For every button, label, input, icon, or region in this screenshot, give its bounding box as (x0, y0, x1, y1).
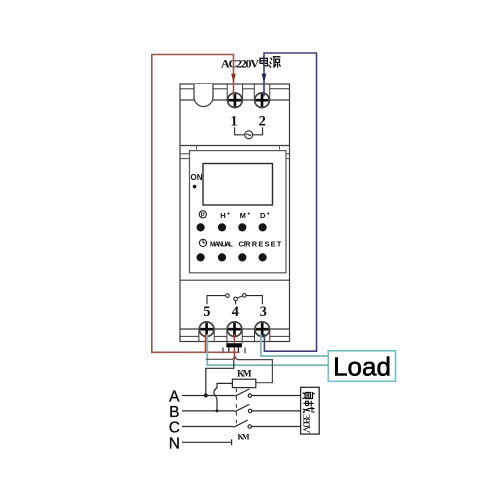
red wire drop terminal 4 (233, 334, 235, 360)
wire from terminal 4 down (206, 360, 234, 396)
Load box (328, 351, 395, 382)
glyph yuan (source) (269, 57, 280, 68)
svg-text:4: 4 (232, 304, 239, 320)
neutral N line (182, 439, 232, 445)
red wire arrow into terminal 1 (231, 74, 236, 83)
svg-text:P: P (201, 213, 205, 219)
glyph zai (load-2) (303, 401, 315, 413)
junction on phase B (216, 409, 219, 412)
svg-text:KM: KM (237, 369, 252, 379)
front panel (190, 151, 287, 273)
svg-text:H: H (220, 211, 225, 220)
phase B line with KM contact (182, 404, 301, 412)
phase A line with KM contact (182, 389, 301, 397)
screw terminal 5 (199, 322, 214, 337)
relay changeover switch symbol (207, 294, 262, 305)
coil feed wire (from junction to KM coil right) (206, 357, 273, 383)
svg-text:B: B (169, 404, 179, 421)
button label P (circled) (199, 211, 206, 219)
svg-text:A: A (169, 389, 180, 406)
button row 1 (197, 223, 267, 231)
coil left wire with hop over phase A (214, 383, 233, 411)
svg-text:5: 5 (203, 304, 210, 320)
svg-text:380V: 380V (300, 414, 312, 434)
svg-text:Load: Load (333, 352, 391, 382)
mounting hole U-notch (194, 84, 213, 107)
svg-text:N: N (169, 435, 180, 452)
timer body outline (180, 84, 290, 342)
button row 2 (197, 253, 267, 261)
red wire: supply loop (152, 55, 240, 353)
svg-text:D: D (260, 211, 266, 220)
svg-text:AC220V: AC220V (221, 57, 259, 71)
glyph fu (load-1) (303, 392, 315, 399)
svg-text:3: 3 (260, 304, 267, 320)
button label D+ (260, 211, 269, 220)
svg-text:RESET: RESET (252, 239, 282, 248)
LCD display (203, 164, 273, 206)
svg-text:C/R: C/R (239, 239, 252, 248)
screw terminal 4 (227, 322, 242, 337)
blue wire arrow into terminal 2 (262, 74, 267, 83)
ON indicator dot (193, 185, 197, 189)
blue wire: supply loop (264, 53, 317, 351)
svg-text:M: M (240, 211, 246, 220)
svg-text:KM: KM (238, 433, 250, 442)
wire clamp block under terminal 4 (223, 343, 245, 353)
glyph dian (electric) (260, 56, 268, 66)
cyan wire terminal 3 to load (261, 334, 329, 356)
load 380V vertical text (300, 392, 314, 433)
svg-text:ON: ON (191, 173, 203, 182)
phase C line with KM contact (182, 420, 301, 428)
bottom terminal slot walls (180, 329, 290, 343)
panel corner notches (197, 146, 280, 150)
DIN clip notch right (285, 154, 290, 159)
svg-text:MANUAL: MANUAL (210, 241, 234, 248)
junction on phase A (204, 394, 208, 398)
screw terminal 2 (255, 93, 270, 108)
screw terminal 3 (255, 322, 270, 337)
mechanical linkage dashed line (235, 389, 237, 427)
svg-text:1: 1 (230, 113, 237, 129)
button label H+ (220, 211, 229, 220)
red wire drop terminal 5 (205, 334, 207, 352)
AC source symbol between pin1 and pin2 (235, 127, 263, 139)
DIN clip notch left (180, 154, 190, 159)
screw terminal 1 (228, 93, 243, 108)
svg-text:2: 2 (259, 113, 266, 129)
button label clock (199, 239, 206, 246)
button label M+ (240, 211, 250, 220)
svg-text:C: C (169, 420, 180, 437)
cyan wire terminal 5 to load (207, 334, 328, 365)
top terminal slot walls (180, 84, 290, 100)
contactor coil KM (232, 379, 255, 387)
three-phase load box (301, 387, 320, 434)
